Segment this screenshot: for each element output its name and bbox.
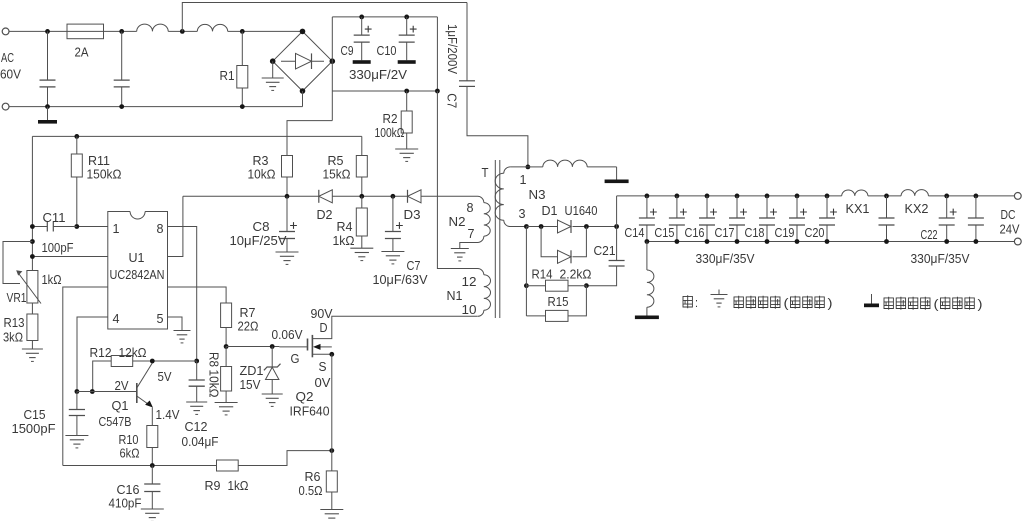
node — [359, 15, 364, 20]
wire R9 to source node — [238, 451, 332, 466]
ground (hot) under C12 — [186, 401, 207, 403]
svg-text:R2: R2 — [383, 111, 398, 126]
svg-text:410pF: 410pF — [109, 496, 142, 511]
svg-text:1.4V: 1.4V — [156, 407, 180, 422]
svg-text:3kΩ: 3kΩ — [3, 330, 23, 345]
label note prefix — [683, 295, 692, 308]
capacitor C18 330uF/35V — [765, 194, 770, 199]
svg-text:S: S — [319, 359, 327, 374]
svg-text:T: T — [482, 165, 489, 180]
svg-text:ZD1: ZD1 — [240, 363, 264, 378]
node — [404, 15, 409, 20]
svg-text:N1: N1 — [447, 288, 463, 303]
diode D3 — [408, 190, 422, 203]
svg-text:C15: C15 — [24, 407, 46, 422]
bridge rectifier diamond — [273, 31, 333, 91]
bridge inner diode — [281, 60, 324, 62]
svg-text:5: 5 — [157, 311, 164, 326]
svg-text:): ) — [978, 297, 983, 312]
svg-text:1: 1 — [113, 221, 120, 236]
ground (hot) at pin 5 — [174, 330, 191, 332]
wire pin 4 — [77, 317, 108, 392]
svg-text:1kΩ: 1kΩ — [42, 272, 62, 287]
wire DC+ lower rail — [332, 90, 437, 92]
wire bottom sense rail — [63, 465, 217, 467]
ground (cold bar) under C14 branch — [635, 316, 659, 320]
svg-text:VR1: VR1 — [7, 290, 27, 305]
svg-text:5V: 5V — [158, 369, 172, 384]
node — [584, 283, 589, 288]
svg-text:100kΩ: 100kΩ — [375, 125, 405, 140]
ground (hot) under C7 — [381, 251, 404, 253]
inductor output choke (top) — [543, 160, 587, 167]
wire output top rail — [617, 195, 842, 197]
svg-text:2.2kΩ: 2.2kΩ — [560, 267, 592, 282]
svg-text:3: 3 — [519, 206, 526, 221]
node — [404, 89, 409, 94]
ground (cold bar) legend symbol — [871, 294, 873, 304]
wire VCC rail — [183, 195, 319, 197]
svg-text:7: 7 — [468, 226, 475, 241]
transformer core — [494, 160, 496, 318]
capacitor C20 330uF/35V — [825, 194, 830, 199]
node — [270, 344, 275, 349]
resistor R14 2.2k — [526, 285, 545, 287]
svg-text:12kΩ: 12kΩ — [119, 345, 147, 360]
svg-text:C10: C10 — [377, 43, 397, 58]
svg-text:6kΩ: 6kΩ — [120, 446, 140, 461]
svg-text:8: 8 — [157, 221, 164, 236]
zener ZD1 15V — [271, 347, 273, 368]
resistor R11 150k — [76, 136, 78, 154]
wire pin 3 down to bottom rail — [63, 287, 108, 466]
ground (hot) under R4 — [350, 247, 373, 249]
svg-text:(: ( — [784, 296, 790, 311]
ground (hot) at bridge left — [272, 61, 274, 78]
node — [539, 224, 544, 229]
node Q1 collector 5V — [150, 359, 155, 364]
node bridge bottom — [300, 88, 306, 94]
resistor R10 6k — [151, 408, 153, 426]
wire N1 feed from DC+ bus — [437, 91, 477, 269]
svg-text:U1640: U1640 — [565, 203, 598, 218]
svg-text:C547B: C547B — [99, 414, 132, 429]
node — [119, 29, 124, 34]
node — [285, 194, 290, 199]
inductor KX1 — [842, 190, 868, 196]
op-amp U1 UC2842AN (PWM controller) — [130, 212, 145, 220]
svg-text:C17: C17 — [715, 225, 735, 240]
inductor under C14 to cold ground — [646, 242, 648, 271]
wire pin 1 — [77, 226, 108, 228]
svg-text:330μF/35V: 330μF/35V — [911, 251, 970, 266]
svg-text:1: 1 — [520, 172, 527, 187]
svg-text:10μF/25V: 10μF/25V — [230, 233, 287, 248]
svg-text:R1: R1 — [220, 68, 235, 83]
winding N1 — [478, 269, 484, 275]
svg-text:10kΩ: 10kΩ — [248, 167, 276, 182]
wire Q2 source down — [331, 354, 333, 471]
resistor R2 100k — [406, 91, 408, 111]
node — [45, 29, 50, 34]
svg-text:0.5Ω: 0.5Ω — [299, 483, 323, 498]
svg-text:15kΩ: 15kΩ — [323, 167, 351, 182]
ground (hot) under R2 — [395, 148, 418, 150]
capacitor X2 (input filter) — [121, 31, 123, 80]
diode D2 — [319, 190, 333, 203]
capacitor C15 330uF/35V — [675, 194, 680, 199]
svg-text:15V: 15V — [240, 377, 261, 392]
wire pin 6 to R7 — [168, 287, 227, 303]
ground (hot) under C8 — [276, 251, 299, 253]
svg-text:C12: C12 — [185, 419, 208, 434]
transistor Q2 IRF640 (MOSFET) — [311, 335, 313, 357]
svg-text:C15: C15 — [654, 225, 674, 240]
node — [614, 224, 619, 229]
resistor R6 0.5 — [326, 471, 337, 492]
node — [90, 389, 95, 394]
ground (hot) legend symbol — [718, 290, 720, 295]
ground (hot) at N2 pin 7 — [451, 248, 469, 250]
svg-text:90V: 90V — [311, 306, 333, 321]
node — [75, 389, 80, 394]
wire Q1 base rail — [77, 391, 137, 393]
winding N2 — [478, 196, 484, 202]
wire 5V rail — [152, 360, 196, 362]
svg-text:R4: R4 — [337, 219, 353, 234]
capacitor C7 10uF/63V — [392, 196, 394, 231]
wire gate rail — [226, 346, 279, 348]
svg-text:Q2: Q2 — [296, 389, 314, 404]
resistor R4 1k — [361, 196, 363, 208]
resistor R7 22 — [221, 303, 232, 328]
inductor KX2 — [901, 190, 928, 196]
diode D1 (lower parallel) — [541, 227, 557, 257]
capacitor C15 1500pF — [76, 392, 78, 410]
svg-text:D1: D1 — [542, 203, 558, 218]
svg-text:8: 8 — [467, 200, 474, 215]
svg-text:DC: DC — [1001, 207, 1016, 222]
capacitor C17 330uF/35V — [735, 194, 740, 199]
svg-text:R12: R12 — [90, 345, 112, 360]
svg-text:D2: D2 — [317, 207, 333, 222]
wire — [228, 30, 303, 32]
svg-text:N3: N3 — [529, 187, 546, 202]
svg-text:UC2842AN: UC2842AN — [110, 267, 165, 282]
svg-text:330μF/2V: 330μF/2V — [349, 67, 407, 82]
capacitor C7 1uF/200V — [466, 3, 468, 81]
wire pin 8 to 5V node — [168, 227, 197, 362]
capacitor C10 — [406, 17, 408, 35]
svg-text:C11: C11 — [43, 210, 66, 225]
wire pin3 down — [525, 227, 527, 316]
resistor R15 — [526, 315, 545, 317]
wire bridge right vertical DC+ bus — [331, 17, 333, 121]
svg-text:2V: 2V — [115, 378, 129, 393]
inductor choke L1a — [137, 24, 169, 31]
ground (cold bar) after choke — [616, 167, 618, 180]
resistor R8 10k — [225, 347, 227, 367]
resistor R12 12k — [93, 361, 112, 392]
ground (hot) under R13 — [22, 348, 43, 350]
svg-text:C20: C20 — [805, 225, 825, 240]
capacitor C16 410pF — [151, 466, 153, 485]
wire left column — [31, 136, 33, 270]
node Q2 source — [329, 352, 334, 357]
svg-text:N2: N2 — [449, 214, 466, 229]
svg-text:10μF/63V: 10μF/63V — [373, 272, 428, 287]
capacitor C11 100pF — [32, 226, 47, 228]
svg-text:R8: R8 — [207, 352, 222, 367]
svg-text:1kΩ: 1kΩ — [228, 478, 249, 493]
ground (cold bar) at AC input — [47, 107, 49, 120]
svg-text:12: 12 — [462, 274, 477, 289]
wire N2 pin7 to ground — [460, 243, 478, 249]
svg-text:100pF: 100pF — [42, 240, 74, 255]
wire pin 7 to VCC rail — [168, 196, 183, 256]
svg-text::: : — [695, 295, 698, 310]
svg-text:C16: C16 — [685, 225, 705, 240]
node — [584, 224, 589, 229]
resistor R9 1k — [217, 460, 239, 471]
node — [524, 283, 529, 288]
ground (hot) under R8 — [215, 402, 238, 404]
node bridge right — [330, 58, 336, 64]
svg-text:IRF640: IRF640 — [290, 404, 330, 419]
winding N3 — [510, 166, 528, 168]
node — [30, 224, 35, 229]
svg-text:4: 4 — [113, 311, 120, 326]
ground (hot) under C15 — [65, 435, 88, 437]
svg-text:C19: C19 — [775, 225, 795, 240]
svg-text:R14: R14 — [532, 267, 553, 282]
svg-text:0.04μF: 0.04μF — [182, 434, 219, 449]
svg-text:C9: C9 — [341, 43, 354, 58]
ground (hot) under C16 — [141, 508, 164, 510]
svg-text:1μF/200V: 1μF/200V — [445, 24, 460, 74]
wire DC+ top rail — [332, 16, 437, 18]
label hot ground note text — [734, 296, 780, 309]
svg-text:330μF/35V: 330μF/35V — [696, 251, 755, 266]
capacitor C22 330uF/35V — [944, 194, 949, 199]
svg-text:150kΩ: 150kΩ — [87, 167, 122, 182]
wire output bottom rail — [647, 241, 1015, 243]
terminal DC- 24V — [1014, 238, 1021, 245]
capacitor X1 (input filter) — [47, 31, 49, 80]
capacitor C16 330uF/35V — [705, 194, 710, 199]
capacitor C19 330uF/35V — [795, 194, 800, 199]
wire bridge bottom to AC rail — [302, 91, 304, 107]
svg-text:G: G — [291, 351, 300, 366]
node — [329, 448, 334, 453]
svg-text:KX1: KX1 — [846, 201, 870, 216]
svg-text:C7: C7 — [407, 258, 421, 273]
node — [391, 194, 396, 199]
svg-text:Q1: Q1 — [112, 398, 129, 413]
wire pin 2 — [32, 256, 107, 258]
terminal AC line bottom — [2, 103, 9, 110]
capacitor C9 — [361, 17, 363, 35]
fuse 2A — [67, 24, 104, 39]
wire to C7 top rail — [182, 3, 467, 32]
svg-text:(: ( — [934, 297, 940, 312]
wire DC+ branch to R3 — [287, 121, 332, 156]
resistor R5 15k — [361, 136, 363, 155]
svg-text:R6: R6 — [305, 469, 321, 484]
node — [45, 104, 50, 109]
inductor choke L1b — [197, 24, 227, 31]
node — [74, 224, 79, 229]
node — [240, 104, 245, 109]
wire D1 output up to rail — [616, 196, 618, 227]
svg-text:60V: 60V — [0, 67, 21, 82]
capacitor C14 330uF/35V — [645, 194, 650, 199]
node — [240, 29, 245, 34]
node bridge top — [300, 29, 306, 35]
svg-text:D: D — [320, 320, 328, 335]
svg-text:0.06V: 0.06V — [272, 327, 303, 342]
svg-text:R15: R15 — [548, 294, 569, 309]
svg-text:R9: R9 — [205, 478, 221, 493]
node N3 pin 1 — [526, 165, 531, 170]
capacitor C12 0.04uF — [196, 361, 198, 380]
capacitor output final — [974, 194, 979, 199]
resistor R1 — [241, 31, 243, 65]
node — [359, 194, 364, 199]
svg-text:C18: C18 — [745, 225, 765, 240]
svg-text:C7: C7 — [445, 93, 460, 108]
node choke midpoint — [180, 29, 185, 34]
wire AC bottom rail — [9, 106, 303, 108]
capacitor C21 — [616, 227, 618, 261]
node — [30, 239, 35, 244]
wire — [168, 30, 197, 32]
wire DC+ right drop — [436, 17, 438, 91]
svg-text:C8: C8 — [253, 219, 270, 234]
wire N1 pin10 to Q2 drain — [312, 316, 477, 338]
resistor R3 10k — [282, 156, 293, 178]
ground (cold bar) under C9 — [353, 60, 371, 64]
ground (cold bar) under C10 — [398, 60, 416, 64]
svg-text:24V: 24V — [1000, 222, 1020, 237]
node — [30, 254, 35, 259]
svg-text:C22: C22 — [921, 227, 938, 242]
svg-text:22Ω: 22Ω — [238, 319, 259, 334]
svg-text:2A: 2A — [75, 45, 89, 60]
node — [119, 104, 124, 109]
node — [435, 89, 440, 94]
terminal DC+ 24V — [1014, 193, 1021, 200]
node — [74, 134, 79, 139]
potentiometer VR1 1k — [27, 271, 38, 304]
svg-text:C21: C21 — [594, 243, 616, 258]
node — [150, 463, 155, 468]
terminal AC line top — [2, 28, 9, 35]
transistor Q1 C547B — [136, 383, 138, 403]
svg-text:C14: C14 — [624, 225, 644, 240]
svg-text:U1: U1 — [129, 250, 145, 265]
svg-text:1kΩ: 1kΩ — [333, 233, 355, 248]
node bridge left — [270, 58, 276, 64]
svg-text:0V: 0V — [315, 375, 331, 390]
node — [224, 344, 229, 349]
wire pin 5 to ground — [168, 317, 183, 331]
wire — [9, 30, 67, 32]
svg-text:AC: AC — [1, 50, 14, 65]
wire startup rail — [32, 135, 361, 137]
svg-text:10kΩ: 10kΩ — [207, 370, 222, 398]
ground (hot) under R6 — [320, 509, 343, 511]
svg-text:1500pF: 1500pF — [12, 421, 56, 436]
node 5V — [194, 359, 199, 364]
resistor R13 3k — [31, 303, 33, 314]
svg-text:): ) — [828, 296, 833, 311]
capacitor after KX1 — [884, 194, 889, 199]
wire D1 row — [526, 226, 557, 228]
ground (hot) under ZD1 — [262, 393, 283, 395]
wire VR1 wiper bracket — [3, 242, 32, 284]
label cold ground note text — [884, 297, 930, 310]
svg-text:D3: D3 — [404, 207, 421, 222]
diode D1 (upper) — [558, 220, 572, 233]
svg-text:10: 10 — [462, 302, 477, 317]
svg-text:R13: R13 — [4, 315, 25, 330]
svg-text:KX2: KX2 — [905, 201, 929, 216]
node N3 pin 3 — [524, 224, 529, 229]
wire — [104, 30, 137, 32]
capacitor C8 10uF/25V — [286, 196, 288, 231]
